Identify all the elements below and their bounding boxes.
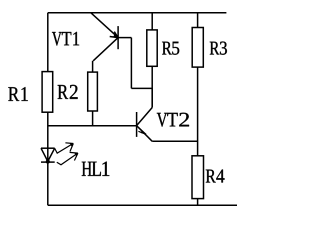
label R2	[58, 85, 78, 99]
label R4	[206, 170, 225, 183]
resistor R2	[88, 61, 98, 126]
wire R4 bottom stub	[197, 199, 199, 206]
node LED junction dot	[46, 160, 50, 164]
wire node to R5/VT2	[131, 87, 152, 89]
wire R5 bottom to node	[151, 66, 153, 107]
wire VT1 base horizontal	[118, 37, 131, 39]
label R5	[162, 42, 179, 55]
wire VT2 base horizontal	[48, 125, 137, 127]
wire left vertical	[47, 13, 49, 205]
resistor R4	[192, 156, 204, 199]
resistor R3	[192, 28, 203, 68]
transistor VT1 (PNP)	[91, 13, 118, 61]
wire right column (R3/R4 branch)	[197, 13, 199, 156]
label VT1	[52, 32, 79, 46]
label HL1	[82, 162, 110, 176]
LED arrow 2	[57, 152, 78, 164]
resistor R1	[42, 72, 53, 113]
label R1	[8, 87, 28, 101]
wire VT1 base vertical drop	[130, 38, 132, 89]
LED arrow 1	[55, 143, 74, 153]
wire top rail	[48, 12, 227, 14]
LED HL1	[41, 148, 55, 162]
wire bottom rail	[48, 204, 237, 206]
wire VT2 emitter horizontal	[152, 140, 197, 142]
label R3	[210, 42, 227, 55]
wire R5 top stub	[151, 13, 153, 30]
resistor R5	[147, 30, 157, 66]
label VT2	[157, 113, 189, 127]
transistor VT2 (NPN)	[137, 88, 153, 141]
